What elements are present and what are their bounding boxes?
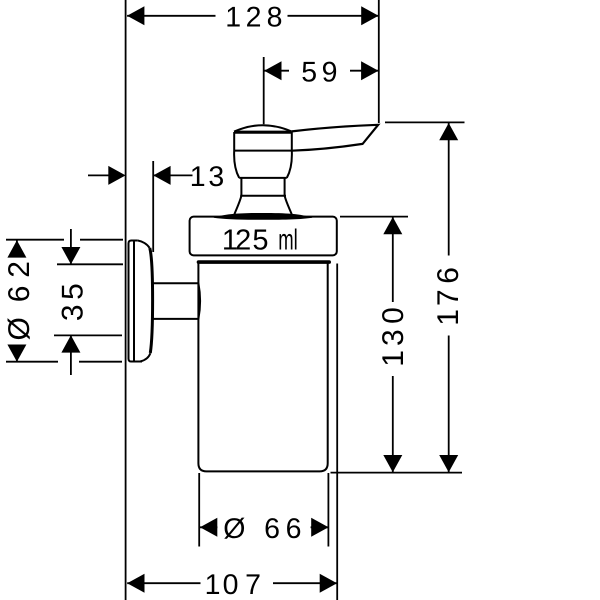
holder collar [190,217,337,256]
svg-text:176: 176 [432,267,465,326]
dimension line diameter 62 [16,240,18,361]
extension line spout top (176) [385,121,465,123]
pump cap bottom line [234,150,292,152]
dimension line 128 [127,15,378,17]
extension line plate front (13) [152,161,154,252]
arrow 35 bottom [61,335,80,352]
wall plate bottom slope [141,353,151,361]
bottle neck ring [199,260,330,264]
pump flange on collar [214,213,313,220]
extension line bottle right (66) [327,473,329,547]
extension line 35 top [57,263,123,265]
extension line holder right (107) [336,264,338,600]
wall plate rim line [133,241,135,362]
extension line bottle bottom (130/176) [331,472,463,474]
svg-text:ml: ml [278,224,298,256]
arrow 13 left [108,166,125,185]
bottle wall bulge at arm [198,283,200,319]
holder arm bottom [153,318,199,320]
pump neck bottom line [240,195,286,197]
arrow 107 left [127,574,144,593]
dimension texts [3,1,465,600]
arrow 128 right [361,6,378,25]
svg-text:128: 128 [225,1,282,33]
wall plate front face [150,248,153,353]
arrow 62 bottom [7,345,26,362]
extension line pump axis (59) [263,57,265,124]
pump cap bar [234,131,292,134]
pump neck sides [241,178,284,196]
pump skirt right [285,196,292,214]
extension line holder top (130) [340,216,408,218]
svg-text:130: 130 [377,307,410,367]
pump cap dome arc [234,125,292,131]
arrow 176 bottom [439,455,458,472]
dimension stems 35 [70,229,72,375]
svg-text:107: 107 [205,569,261,600]
pump spout [292,125,378,151]
arrow 62 top [7,240,26,257]
arrow 13 right [153,166,170,185]
dimension line 107 [127,582,337,584]
pump cap sides [234,132,292,151]
dimension line 59 [264,70,378,72]
pump body sides [234,151,292,178]
holder arm top [153,282,199,284]
wall line [125,0,127,600]
dimension line diameter 66 [200,526,329,528]
arrow 130 top [383,217,402,234]
extension line plate bottom (62) [6,361,122,363]
arrow 128 left [127,6,144,25]
extension line right (128/59) [378,0,380,123]
svg-text:125: 125 [222,224,269,256]
wall plate back [129,241,143,362]
arrow 66 left [200,518,217,537]
white gaps behind dimension text [3,4,461,596]
arrow 107 right [320,574,337,593]
dimension line 176 [448,123,450,472]
dimension arrows [7,6,458,592]
svg-text:Ø62: Ø62 [3,261,36,340]
pump body bottom line [239,177,287,179]
arrow 59 right [361,61,378,80]
extension line plate top (62) [6,239,123,241]
dimension tails 13 [88,174,193,176]
arrow 59 left [264,61,281,80]
bottle body [198,263,327,472]
arrow 130 bottom [383,455,402,472]
arrow 66 right [311,518,328,537]
wall plate top slope [138,241,150,248]
arrow 176 top [439,123,458,140]
dimension line 130 [392,217,394,472]
soap dispenser drawing [129,125,379,472]
arrow 35 top [61,247,80,264]
pump skirt left [234,196,241,214]
extension line 35 bottom [54,334,122,336]
extension line bottle left (66) [198,473,200,547]
